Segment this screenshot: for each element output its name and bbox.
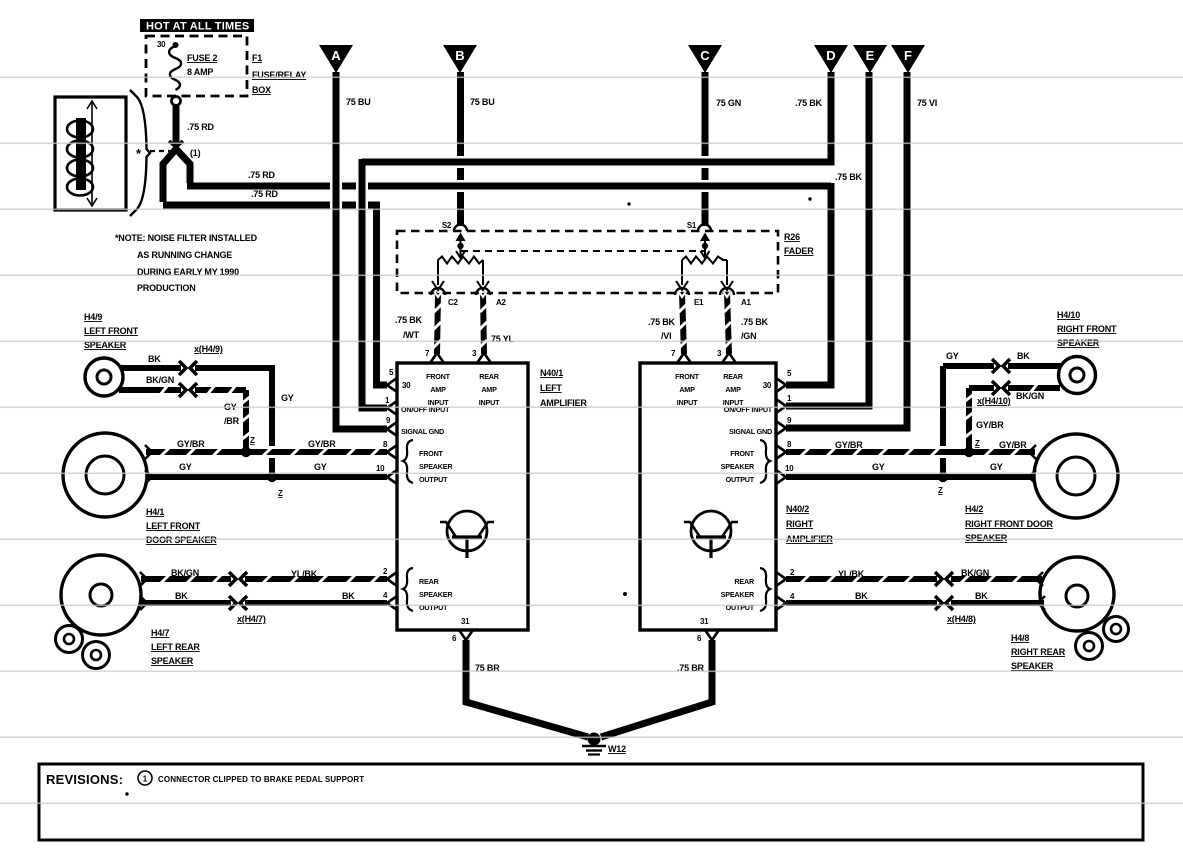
inline connector x(H4/8) bottom: [935, 596, 953, 610]
speaker H4/1 left front door: [63, 433, 217, 545]
svg-text:REAR: REAR: [479, 372, 500, 381]
svg-text:YL/BK: YL/BK: [838, 569, 865, 579]
wire GY vertical right to junction Z: [940, 366, 946, 474]
potentiometer left wiper: [456, 234, 465, 258]
svg-text:GY: GY: [314, 462, 327, 472]
wire .75 RD bus 1 (y=186): [187, 170, 863, 186]
svg-text:GY: GY: [946, 351, 959, 361]
svg-text:.75 BK: .75 BK: [741, 317, 769, 327]
wire GY/BR vertical right (striped) to junction Z: [964, 388, 1004, 449]
wire C .75 GN to fader S1: [705, 72, 741, 226]
svg-text:AMP: AMP: [679, 385, 695, 394]
ground W12: [582, 733, 626, 755]
svg-text:H4/2: H4/2: [965, 504, 983, 514]
wire tent split below junction: [163, 149, 176, 202]
svg-text:REAR: REAR: [419, 577, 440, 586]
right amp pin 7 (top): [671, 349, 691, 363]
svg-text:BK: BK: [1017, 351, 1030, 361]
svg-text:S1: S1: [687, 221, 697, 230]
inline connector x(H4/7) top: [229, 572, 247, 586]
svg-text:/GN: /GN: [741, 331, 756, 341]
wire right amp pin31 .75 BR to ground: [601, 640, 712, 737]
wire RD1 vertical to right amp pin 5: [786, 183, 831, 385]
stray scan dots: [627, 202, 630, 205]
potentiometer left resistor element: [438, 257, 483, 264]
wire F .75 VI to right amp pin 9 signal gnd: [786, 72, 937, 428]
svg-text:10: 10: [376, 464, 385, 473]
svg-text:GY/BR: GY/BR: [177, 439, 205, 449]
svg-text:INPUT: INPUT: [677, 398, 698, 407]
wire BK/GN from H4/9 (striped): [119, 375, 246, 395]
svg-text:LEFT FRONT: LEFT FRONT: [84, 326, 139, 336]
svg-text:SPEAKER: SPEAKER: [965, 533, 1008, 543]
fork at H4/2 for GY/BR: [1029, 445, 1036, 459]
svg-text:CONNECTOR CLIPPED TO BRAKE PED: CONNECTOR CLIPPED TO BRAKE PEDAL SUPPORT: [158, 775, 364, 784]
wire YL/BK - BK/GN rear right (striped) pin 2 to H4/8: [786, 568, 1042, 584]
right amp pin 5 / terminal 30: [763, 369, 792, 392]
svg-text:*NOTE: NOISE FILTER INSTALLED: *NOTE: NOISE FILTER INSTALLED: [115, 233, 258, 243]
svg-text:Z: Z: [278, 489, 283, 498]
svg-text:GY/BR: GY/BR: [999, 440, 1027, 450]
svg-text:30: 30: [763, 381, 772, 390]
svg-text:GY: GY: [179, 462, 192, 472]
svg-text:FUSE 2: FUSE 2: [187, 53, 218, 63]
inline connector x(H4/9) top: [179, 361, 197, 375]
svg-text:SPEAKER: SPEAKER: [721, 462, 755, 471]
potentiometer right resistor element: [682, 257, 727, 264]
svg-text:A2: A2: [496, 298, 506, 307]
svg-text:LEFT FRONT: LEFT FRONT: [146, 521, 201, 531]
left pot end to A2: [476, 260, 490, 295]
svg-text:OUTPUT: OUTPUT: [726, 603, 755, 612]
svg-text:H4/10: H4/10: [1057, 310, 1080, 320]
N40/2 label: [786, 504, 833, 544]
wire E to right amp pin 1 on/off: [786, 72, 869, 406]
svg-text:75 YL: 75 YL: [491, 334, 515, 344]
junction Z on GY right: [938, 472, 948, 495]
wire RD2 vertical to left amp pin 5: [377, 202, 388, 385]
wire GY/BR front left (striped) to pin 8: [146, 439, 387, 457]
fork at H4/8 bottom wire: [1038, 596, 1045, 610]
svg-text:.75 RD: .75 RD: [251, 189, 279, 199]
fork at H4/1 for GY: [145, 470, 152, 484]
svg-text:.75 BK: .75 BK: [648, 317, 676, 327]
svg-text:FADER: FADER: [784, 246, 814, 256]
left amp pin 3 (top): [472, 349, 491, 363]
svg-text:OUTPUT: OUTPUT: [419, 475, 448, 484]
right amp pin 1 on/off input: [724, 394, 792, 414]
svg-text:S2: S2: [442, 221, 452, 230]
svg-text:SPEAKER: SPEAKER: [1011, 661, 1054, 671]
svg-text:BOX: BOX: [252, 85, 271, 95]
svg-text:R26: R26: [784, 232, 800, 242]
right amp pin 10: [776, 464, 794, 484]
svg-text:FRONT: FRONT: [426, 372, 451, 381]
wire E1 to pin 7 right amp (.75 BK/VI): [648, 292, 687, 354]
svg-text:RIGHT: RIGHT: [786, 519, 814, 529]
svg-text:F: F: [904, 48, 912, 63]
svg-text:75 BU: 75 BU: [346, 97, 371, 107]
fork at H4/7 bottom wire: [140, 596, 147, 610]
svg-text:BK: BK: [148, 354, 161, 364]
svg-text:Z: Z: [975, 439, 980, 448]
svg-text:SIGNAL GND: SIGNAL GND: [401, 427, 444, 436]
note text: [115, 233, 258, 293]
fuse output connector circle: [172, 97, 181, 106]
wire BK rear right pin 4 to H4/8: [786, 591, 1044, 603]
svg-text:ON/OFF INPUT: ON/OFF INPUT: [724, 405, 773, 414]
right amp pin 9 signal gnd: [729, 416, 792, 436]
svg-text:Z: Z: [938, 486, 943, 495]
svg-text:Z: Z: [250, 436, 255, 445]
svg-text:SPEAKER: SPEAKER: [1057, 338, 1100, 348]
svg-text:FRONT: FRONT: [419, 449, 444, 458]
svg-text:E: E: [866, 48, 875, 63]
svg-text:75 GN: 75 GN: [716, 98, 741, 108]
inline connector x(H4/9) bottom: [179, 383, 197, 397]
fork at H4/2 for GY: [1029, 470, 1036, 484]
inline connector (1) on fuse wire: [169, 141, 183, 156]
svg-text:RIGHT REAR: RIGHT REAR: [1011, 647, 1066, 657]
svg-text:.75 BK: .75 BK: [795, 98, 823, 108]
inline connector x(H4/10) bottom: [992, 381, 1010, 395]
svg-text:31: 31: [700, 617, 709, 626]
right amp pin 3 (top): [717, 349, 736, 363]
left amp pin 2: [383, 567, 397, 586]
fork at H4/1 for GY/BR: [145, 445, 152, 459]
fuse F2 symbol: [169, 42, 181, 90]
svg-text:GY/BR: GY/BR: [308, 439, 336, 449]
wire BK rear left to pin 4: [141, 591, 387, 603]
fork at H4/8 top wire: [1036, 572, 1043, 586]
svg-text:GY: GY: [990, 462, 1003, 472]
svg-text:REVISIONS:: REVISIONS:: [46, 772, 123, 787]
svg-text:RIGHT FRONT: RIGHT FRONT: [1057, 324, 1117, 334]
svg-text:ON/OFF INPUT: ON/OFF INPUT: [401, 405, 450, 414]
connector B: [443, 45, 477, 73]
svg-text:BK/GN: BK/GN: [171, 568, 199, 578]
svg-text:SPEAKER: SPEAKER: [419, 462, 453, 471]
svg-text:F1: F1: [252, 53, 262, 63]
svg-text:PRODUCTION: PRODUCTION: [137, 283, 196, 293]
speaker H4/10 right front: [1057, 310, 1117, 394]
svg-text:SPEAKER: SPEAKER: [721, 590, 755, 599]
junction Z on GY/BR: [241, 436, 255, 457]
svg-text:BK: BK: [342, 591, 355, 601]
svg-text:GY/BR: GY/BR: [976, 420, 1004, 430]
svg-text:31: 31: [461, 617, 470, 626]
inline connector x(H4/7) bottom: [229, 596, 247, 610]
svg-text:GY/BR: GY/BR: [835, 440, 863, 450]
wire BK from H4/10: [943, 351, 1061, 366]
svg-text:H4/9: H4/9: [84, 312, 102, 322]
svg-text:H4/7: H4/7: [151, 628, 169, 638]
N40/1 label: [540, 368, 587, 408]
connector F: [891, 45, 925, 73]
inline connector x(H4/8) top: [935, 572, 953, 586]
junction Z on GY/BR right: [964, 439, 980, 457]
svg-text:HOT AT ALL TIMES: HOT AT ALL TIMES: [146, 21, 249, 33]
svg-text:AMP: AMP: [725, 385, 741, 394]
svg-text:N40/2: N40/2: [786, 504, 809, 514]
hot at all times banner: [140, 19, 254, 33]
svg-text:BK: BK: [975, 591, 988, 601]
fader R26 box (dashed): [397, 231, 778, 293]
wire BK/GN - YL/BK rear left (striped) to pin 2: [141, 568, 387, 584]
svg-text:BK/GN: BK/GN: [961, 568, 989, 578]
connector D: [814, 45, 848, 73]
svg-text:LEFT: LEFT: [540, 383, 562, 393]
connector A: [319, 45, 353, 73]
left amp pin 8: [383, 440, 397, 459]
wire D .75 BK to left amp pin 1 on/off: [362, 72, 831, 408]
svg-text:75 VI: 75 VI: [917, 98, 937, 108]
wire A .75 BU to left amp pin 9: [336, 72, 387, 429]
svg-text:75 BU: 75 BU: [470, 97, 495, 107]
revisions box: [39, 764, 1143, 840]
svg-text:x(H4/10): x(H4/10): [977, 396, 1011, 406]
wire C2 to pin 7 left amp (.75 BK/WT): [395, 292, 442, 354]
right amp internal input labels: [675, 372, 744, 407]
left amp rear speaker output brace + label: [403, 568, 453, 612]
potentiometer right wiper: [701, 234, 710, 258]
left amp transistor symbol: [440, 511, 494, 558]
noise filter box: [55, 97, 126, 210]
dashed link brace to junction: [150, 150, 170, 152]
left amp pin 5 / terminal 30: [387, 368, 411, 392]
svg-text:x(H4/9): x(H4/9): [194, 344, 223, 354]
svg-text:8 AMP: 8 AMP: [187, 67, 213, 77]
svg-text:SIGNAL GND: SIGNAL GND: [729, 427, 772, 436]
left amp pin 1 on/off input: [385, 396, 450, 415]
svg-text:/WT: /WT: [403, 330, 420, 340]
amplifier N40/1 box: [397, 363, 528, 630]
svg-text:N40/1: N40/1: [540, 368, 563, 378]
wire B .75 BU to fader S2: [461, 72, 495, 226]
node S2: [442, 221, 467, 231]
svg-text:INPUT: INPUT: [479, 398, 500, 407]
right amp pin 8: [776, 440, 792, 459]
svg-text:GY: GY: [281, 393, 294, 403]
speaker H4/9 left front: [84, 312, 139, 396]
wiper coupling dashed line: [461, 250, 705, 252]
connector C: [688, 45, 722, 73]
right amp pin 31 (bottom): [697, 617, 719, 643]
right amp front speaker output brace + label: [721, 440, 770, 484]
left amp pin 7 (top): [425, 349, 444, 363]
wire GY/BR vertical (striped) to junction Z: [224, 390, 251, 449]
left amp pin 4: [383, 591, 397, 610]
svg-text:/BR: /BR: [224, 416, 240, 426]
svg-text:E1: E1: [694, 298, 704, 307]
fuse/relay box F1 (dashed): [146, 36, 247, 96]
svg-text:W12: W12: [608, 744, 626, 754]
svg-text:RIGHT FRONT DOOR: RIGHT FRONT DOOR: [965, 519, 1053, 529]
svg-text:B: B: [455, 48, 464, 63]
node S1: [687, 221, 711, 231]
wire GY vertical to junction Z: [269, 368, 294, 474]
svg-text:A1: A1: [741, 298, 751, 307]
svg-text:GY: GY: [872, 462, 885, 472]
svg-text:C2: C2: [448, 298, 458, 307]
svg-text:x(H4/7): x(H4/7): [237, 614, 266, 624]
inline connector x(H4/10) top: [992, 359, 1010, 373]
left amp pin 31 (bottom): [452, 617, 473, 643]
svg-text:AMP: AMP: [430, 385, 446, 394]
svg-text:.75 BK: .75 BK: [835, 172, 863, 182]
junction Z on GY: [267, 472, 283, 498]
svg-text:/VI: /VI: [661, 331, 671, 341]
svg-text:OUTPUT: OUTPUT: [419, 603, 448, 612]
svg-text:OUTPUT: OUTPUT: [726, 475, 755, 484]
svg-text:BK: BK: [855, 591, 868, 601]
left pot end to C2: [431, 260, 445, 295]
svg-text:30: 30: [157, 40, 166, 49]
right pot end to E1: [675, 260, 689, 295]
wire GY front left to pin 10: [146, 462, 387, 477]
speaker H4/7 left rear: [56, 555, 201, 669]
fork at H4/7 top wire: [140, 572, 147, 586]
svg-text:.75 RD: .75 RD: [248, 170, 276, 180]
svg-text:YL/BK: YL/BK: [291, 569, 318, 579]
svg-text:1: 1: [143, 775, 148, 784]
svg-text:FRONT: FRONT: [675, 372, 700, 381]
wire A1 to pin 3 right amp (.75 BK/GN): [723, 292, 769, 354]
left amp internal input labels: [426, 372, 500, 407]
wire BK/GN from H4/10 (striped): [969, 383, 1060, 401]
svg-text:(1): (1): [190, 148, 201, 158]
wire left amp pin31 .75 BR to ground: [466, 640, 588, 737]
right amp pin 2: [776, 568, 795, 586]
right amp pin 4: [776, 592, 795, 610]
svg-text:AS RUNNING CHANGE: AS RUNNING CHANGE: [137, 250, 232, 260]
left amp pin 9 signal gnd: [386, 416, 444, 436]
svg-text:FRONT: FRONT: [730, 449, 755, 458]
right pot end to A1: [720, 260, 734, 295]
speaker H4/2 right front door: [965, 434, 1118, 543]
svg-text:H4/8: H4/8: [1011, 633, 1029, 643]
right amp transistor symbol: [684, 511, 738, 558]
svg-text:AMP: AMP: [481, 385, 497, 394]
speaker H4/8 right rear: [1011, 557, 1129, 671]
svg-text:REAR: REAR: [723, 372, 744, 381]
svg-text:.75 RD: .75 RD: [187, 122, 215, 132]
wire .75 RD from fuse to junction: [173, 106, 180, 146]
wire A2 to pin 3 left amp (.75 YL): [479, 292, 515, 354]
left amp front speaker output brace + label: [403, 440, 453, 484]
svg-text:BK: BK: [175, 591, 188, 601]
svg-text:FUSE/RELAY: FUSE/RELAY: [252, 70, 306, 80]
svg-text:REAR: REAR: [734, 577, 755, 586]
wire .75 RD bus 2 (y=205): [163, 189, 380, 205]
svg-text:D: D: [826, 48, 835, 63]
svg-text:SPEAKER: SPEAKER: [151, 656, 194, 666]
svg-text:SPEAKER: SPEAKER: [419, 590, 453, 599]
brace pointing to junction: [130, 90, 150, 216]
amplifier N40/2 box: [640, 363, 776, 630]
svg-text:BK/GN: BK/GN: [146, 375, 174, 385]
svg-text:x(H4/8): x(H4/8): [947, 614, 976, 624]
svg-text:LEFT REAR: LEFT REAR: [151, 642, 200, 652]
svg-text:A: A: [331, 48, 341, 63]
svg-text:10: 10: [785, 464, 794, 473]
wire GY front right pin 10 to H4/2: [786, 462, 1035, 477]
svg-text:H4/1: H4/1: [146, 507, 164, 517]
connector E: [853, 45, 887, 73]
right amp rear speaker output brace + label: [721, 568, 770, 612]
svg-text:30: 30: [402, 381, 411, 390]
wire GY/BR front right (striped) pin 8 to H4/2: [786, 440, 1035, 457]
wire BK from H4/9: [120, 354, 272, 368]
svg-text:C: C: [700, 48, 710, 63]
svg-text:BK/GN: BK/GN: [1016, 391, 1044, 401]
left amp pin 10: [376, 464, 397, 484]
svg-text:.75 BK: .75 BK: [395, 315, 423, 325]
